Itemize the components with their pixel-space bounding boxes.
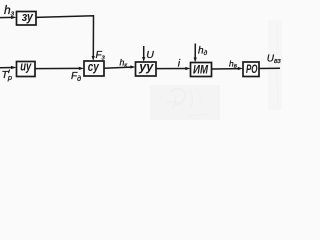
- node label Fз: [96, 50, 106, 62]
- block ИУ: [17, 60, 36, 77]
- block ИМ: [191, 63, 212, 77]
- wire: ИМ to РО: [212, 67, 244, 70]
- svg-text:U: U: [146, 49, 154, 61]
- svg-text:су: су: [88, 60, 100, 74]
- svg-text:иу: иу: [20, 60, 32, 74]
- wire: СУ to УУ: [104, 65, 136, 68]
- block УУ: [136, 60, 157, 76]
- svg-text:зу: зу: [22, 10, 34, 24]
- node label Fд: [71, 71, 81, 83]
- node label h3 (input to ЗУ): [4, 3, 15, 17]
- block ЗУ: [17, 10, 37, 25]
- svg-text:РО: РО: [246, 64, 258, 76]
- wire: vertical arrow into top of УУ: [142, 46, 145, 62]
- node label hк: [120, 57, 128, 68]
- node label Uвз (output): [267, 53, 282, 65]
- wire: РО output: [259, 67, 280, 69]
- node label hв: [229, 58, 237, 69]
- wire: ЗУ output across top and down into СУ: [36, 16, 95, 61]
- node label hд (above ИМ): [198, 45, 208, 57]
- block РО: [243, 62, 259, 77]
- svg-text:ИМ: ИМ: [193, 63, 209, 77]
- wire: ИУ to СУ: [35, 67, 84, 70]
- node label U (above УУ): [146, 49, 154, 61]
- node label i: [178, 57, 181, 69]
- wire: input arrow into ЗУ: [0, 16, 17, 19]
- wire: vertical arrow into top of ИМ: [194, 44, 197, 63]
- svg-text:уу: уу: [138, 60, 154, 74]
- block СУ: [84, 60, 104, 76]
- wire: УУ to ИМ: [156, 67, 191, 70]
- wire: input arrow into ИУ: [0, 66, 17, 69]
- node label Тр (input to ИУ): [2, 69, 13, 82]
